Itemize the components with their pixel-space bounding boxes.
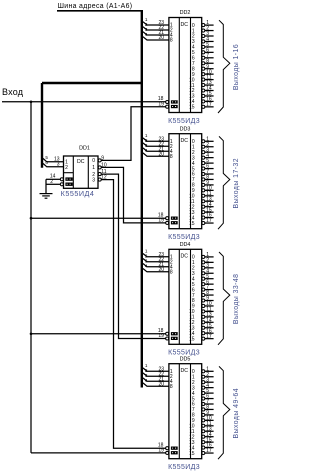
DD3 strobe pin 18 bubble <box>166 217 169 220</box>
svg-text:DD2: DD2 <box>180 10 191 16</box>
svg-text:8: 8 <box>170 270 173 276</box>
wire DD1 out2 to DD4 pin 19 <box>101 174 165 338</box>
brace outputs group DD2 <box>218 20 230 113</box>
svg-text:DD1: DD1 <box>79 145 90 151</box>
wire Вход vertical distribution <box>30 102 32 453</box>
svg-text:4: 4 <box>145 264 148 269</box>
node A1 bus tap to DD5 <box>143 368 169 371</box>
svg-text:8: 8 <box>170 154 173 160</box>
svg-text:DC: DC <box>77 159 85 165</box>
node A3 bus tap to DD5 <box>143 378 169 381</box>
wire DD1 out3 to DD5 pin 18 <box>101 180 165 449</box>
svg-text:6: 6 <box>45 160 48 165</box>
svg-text:15: 15 <box>189 105 195 111</box>
svg-text:15: 15 <box>189 451 195 457</box>
svg-text:17: 17 <box>206 334 212 340</box>
DD5 strobe internal label 1 <box>171 447 178 450</box>
node A1 bus tap to DD3 <box>143 138 169 141</box>
svg-text:0: 0 <box>92 158 95 164</box>
address bus top line <box>57 10 143 12</box>
junction at DD3 branch <box>30 217 33 220</box>
svg-text:DC: DC <box>181 368 189 374</box>
wire DD1 out1 to DD3 pin 19 <box>101 167 165 223</box>
svg-text:1: 1 <box>92 165 95 171</box>
svg-text:15: 15 <box>189 221 195 227</box>
node A4 bus tap to DD4 <box>143 269 169 272</box>
DD2 strobe internal label 1 <box>171 100 178 103</box>
decoder DD3 body <box>169 134 202 229</box>
svg-text:8: 8 <box>170 38 173 44</box>
DD1 strobe pin 2 wire with inverter bubble <box>60 183 63 186</box>
node A1 bus tap to DD4 <box>143 254 169 257</box>
brace outputs group DD3 <box>218 136 230 229</box>
node A6 bus tap <box>43 163 64 166</box>
svg-text:19: 19 <box>158 218 164 224</box>
svg-text:20: 20 <box>159 381 165 387</box>
svg-text:20: 20 <box>159 267 165 273</box>
decoder DD1 body <box>64 156 99 188</box>
DD1 strobe pin 14 wire with inverter bubble <box>60 178 63 181</box>
junction at DD4 branch <box>30 333 33 336</box>
svg-text:DC: DC <box>181 138 189 144</box>
DD2 strobe pin 18 bubble <box>166 100 169 103</box>
node A2 bus tap to DD2 <box>143 27 169 30</box>
wire Вход branch to DD4 pin 18 <box>31 333 166 335</box>
DD4 strobe internal label 2 <box>171 337 178 340</box>
svg-text:20: 20 <box>159 35 165 41</box>
DD2 strobe pin 19 bubble <box>166 105 169 108</box>
svg-text:19: 19 <box>158 101 164 107</box>
junction Вход/vertical <box>30 101 33 104</box>
wire DD1 out0 to DD2 pin 19 <box>101 107 165 161</box>
brace outputs group DD5 <box>218 366 230 459</box>
svg-text:4: 4 <box>145 148 148 153</box>
DD5 strobe pin 18 bubble <box>166 447 169 450</box>
svg-text:17: 17 <box>206 102 212 108</box>
node A2 bus tap to DD5 <box>143 373 169 376</box>
DD3 strobe internal label 2 <box>171 221 178 224</box>
svg-text:3: 3 <box>57 162 60 168</box>
svg-text:17: 17 <box>206 448 212 454</box>
DD4 strobe internal label 1 <box>171 332 178 335</box>
DD5 strobe internal label 2 <box>171 451 178 454</box>
svg-text:Выходы 49-64: Выходы 49-64 <box>233 388 240 439</box>
DD1 strobe internal label 2 <box>65 183 72 186</box>
svg-text:DC: DC <box>181 254 189 260</box>
svg-text:DD5: DD5 <box>180 356 191 362</box>
ground <box>40 193 53 195</box>
node A3 bus tap to DD3 <box>143 148 169 151</box>
node A5 bus tap <box>43 158 64 161</box>
svg-text:8: 8 <box>170 384 173 390</box>
node A4 bus tap to DD2 <box>143 37 169 40</box>
node A2 bus tap to DD3 <box>143 143 169 146</box>
svg-text:15: 15 <box>189 336 195 342</box>
svg-text:Выходы 17-32: Выходы 17-32 <box>233 158 240 209</box>
node A4 bus tap to DD3 <box>143 153 169 156</box>
node A4 bus tap to DD5 <box>143 383 169 386</box>
svg-text:2: 2 <box>50 179 53 185</box>
decoder DD5 body <box>169 364 202 459</box>
node A3 bus tap to DD2 <box>143 32 169 35</box>
DD3 strobe internal label 1 <box>171 217 178 220</box>
address bus branch horizontal to DD1 <box>42 82 143 84</box>
svg-text:19: 19 <box>158 448 164 454</box>
brace outputs group DD4 <box>218 252 230 345</box>
svg-text:4: 4 <box>145 378 148 383</box>
address bus vertical <box>141 11 143 388</box>
node A1 bus tap to DD2 <box>143 22 169 25</box>
decoder DD4 body <box>169 249 202 344</box>
svg-text:Шина адреса (А1-А6): Шина адреса (А1-А6) <box>58 3 133 10</box>
svg-text:20: 20 <box>159 151 165 157</box>
svg-text:К555ИД3: К555ИД3 <box>168 118 200 125</box>
wire Вход end to DD5 pin 19 <box>31 452 166 454</box>
svg-text:DD3: DD3 <box>180 126 191 132</box>
node A3 bus tap to DD4 <box>143 264 169 267</box>
svg-text:2: 2 <box>65 165 68 171</box>
svg-text:17: 17 <box>206 218 212 224</box>
DD4 strobe pin 19 bubble <box>166 337 169 340</box>
wire Вход branch to DD3 pin 18 <box>31 217 166 219</box>
svg-text:DC: DC <box>181 22 189 28</box>
svg-text:Вход: Вход <box>2 87 24 97</box>
DD2 strobe internal label 2 <box>171 105 178 108</box>
address bus branch vertical to DD1 <box>41 83 43 168</box>
DD1 strobe internal label 1 <box>65 177 72 180</box>
svg-text:Выходы 33-48: Выходы 33-48 <box>233 274 240 325</box>
node A2 bus tap to DD4 <box>143 259 169 262</box>
decoder DD2 body <box>169 18 202 113</box>
svg-text:К555ИД4: К555ИД4 <box>61 189 95 198</box>
svg-text:DD4: DD4 <box>180 242 191 248</box>
wire Вход to DD2 pin 18 <box>2 101 166 103</box>
DD5 strobe pin 19 bubble <box>166 451 169 454</box>
svg-text:19: 19 <box>158 333 164 339</box>
svg-text:Выходы 1-16: Выходы 1-16 <box>233 44 240 90</box>
DD4 strobe pin 18 bubble <box>166 332 169 335</box>
svg-text:3: 3 <box>92 177 95 183</box>
svg-text:К555ИД3: К555ИД3 <box>168 464 200 471</box>
svg-text:К555ИД3: К555ИД3 <box>168 234 200 241</box>
DD3 strobe pin 19 bubble <box>166 221 169 224</box>
wire strobes to ground <box>45 179 47 193</box>
svg-text:4: 4 <box>145 32 148 37</box>
